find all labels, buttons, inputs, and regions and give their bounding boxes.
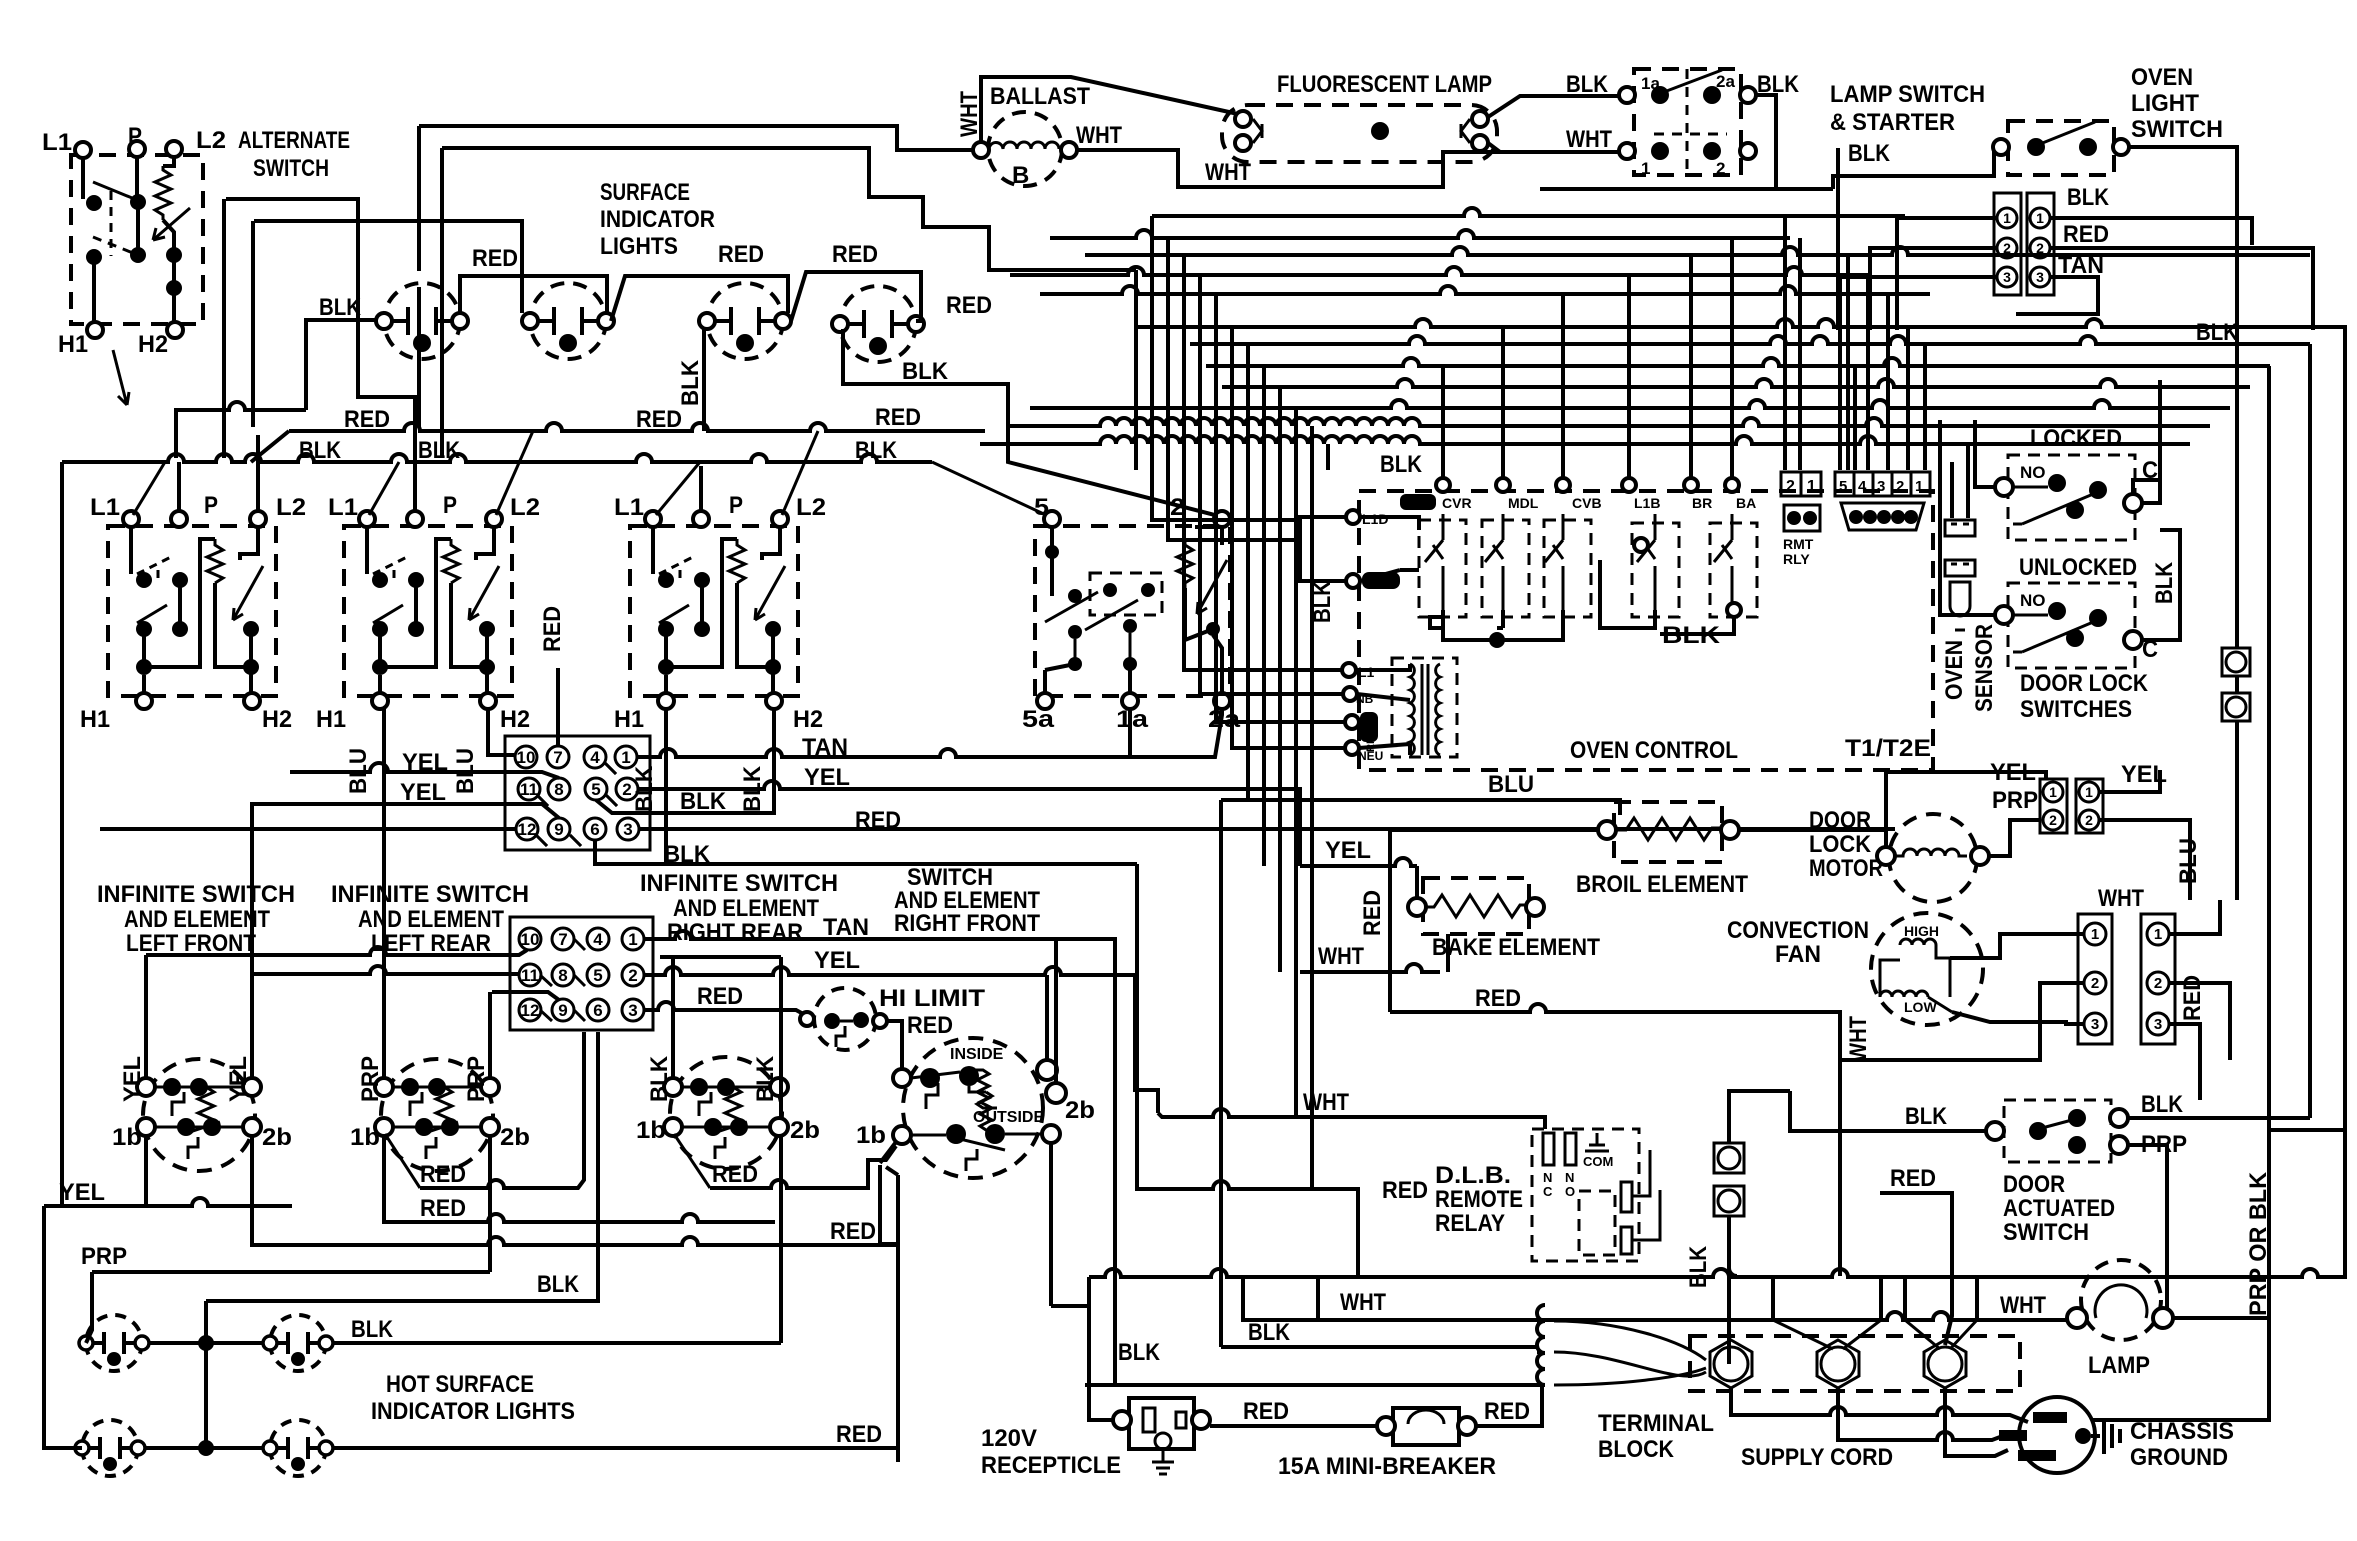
wire mid bottom long rows — [1089, 1130, 2345, 1277]
svg-text:H1: H1 — [614, 706, 644, 733]
svg-text:TERMINAL: TERMINAL — [1598, 1410, 1714, 1437]
svg-text:AND ELEMENT: AND ELEMENT — [358, 906, 504, 933]
wire hot lights column — [204, 1301, 208, 1448]
lamp switch and starter — [1540, 69, 2000, 189]
svg-text:P: P — [443, 492, 457, 519]
wire TAN pin1 to 2a — [637, 709, 1222, 757]
svg-text:WHT: WHT — [2000, 1292, 2046, 1319]
svg-text:2: 2 — [2049, 812, 2057, 828]
wire receptacle feed — [1089, 1277, 1113, 1420]
svg-text:DOOR LOCK: DOOR LOCK — [2020, 670, 2149, 697]
wires below hexes to plug — [1731, 1388, 2028, 1422]
svg-text:YEL: YEL — [814, 947, 860, 974]
svg-text:WHT: WHT — [1845, 1016, 1872, 1062]
diagonal feed L2 box1 — [256, 435, 260, 511]
svg-text:RED: RED — [539, 606, 566, 652]
svg-text:6: 6 — [590, 820, 599, 839]
svg-text:2: 2 — [2085, 812, 2093, 828]
column drops into oven control — [1443, 238, 1732, 481]
svg-text:BLK: BLK — [752, 1055, 779, 1102]
svg-text:HI LIMIT: HI LIMIT — [879, 985, 985, 1012]
12-pin connector bottom — [510, 917, 653, 1030]
svg-text:RED: RED — [946, 292, 992, 319]
svg-text:WHT: WHT — [2098, 885, 2144, 912]
wire box3-H1 drop — [664, 709, 668, 864]
NEU pin — [1345, 741, 1359, 755]
svg-text:DOOR: DOOR — [1809, 807, 1871, 834]
wire YEL to bake — [1300, 858, 1417, 898]
svg-text:BLK: BLK — [902, 358, 949, 385]
hot surface light 3 — [75, 1420, 145, 1476]
wire right edge verticals — [2269, 344, 2345, 1318]
switch box 1 (left) — [108, 511, 276, 709]
svg-text:8: 8 — [558, 966, 567, 985]
pin 3 — [617, 818, 639, 840]
bake element — [1423, 878, 1529, 934]
svg-text:YEL: YEL — [225, 1056, 252, 1102]
svg-text:RIGHT FRONT: RIGHT FRONT — [894, 910, 1040, 937]
bus row 7 — [1190, 336, 2310, 344]
svg-text:BA: BA — [1736, 495, 1756, 511]
bus row 2 — [1050, 230, 1790, 238]
wire TAN pin3R right — [2016, 277, 2098, 314]
chassis ground — [2091, 1418, 2120, 1454]
svg-text:FLUORESCENT LAMP: FLUORESCENT LAMP — [1277, 71, 1492, 98]
convection fan — [1871, 913, 1983, 1025]
pin 4 — [584, 746, 606, 768]
svg-text:2: 2 — [622, 780, 631, 799]
hi limit — [800, 988, 887, 1050]
svg-text:10: 10 — [521, 930, 540, 949]
fluorescent lamp tube — [1222, 105, 1497, 162]
pin 8 — [548, 778, 570, 800]
locked switch box — [2008, 455, 2135, 540]
svg-text:6: 6 — [593, 1001, 602, 1020]
svg-text:BLK: BLK — [537, 1271, 580, 1298]
relay bottoms junction — [1430, 610, 1563, 640]
svg-text:BLK: BLK — [646, 1055, 673, 1102]
infinite switch band — [97, 864, 1158, 1462]
bus row 6 long blk — [1136, 319, 2345, 420]
alternate switch box — [71, 155, 203, 324]
svg-text:3: 3 — [623, 820, 632, 839]
wire oven light switch drop right — [2235, 269, 2239, 900]
svg-text:2: 2 — [2154, 975, 2162, 992]
wire RED light2 to light3 jog — [611, 276, 788, 321]
svg-text:L1: L1 — [90, 494, 120, 521]
svg-text:SWITCH: SWITCH — [253, 155, 329, 182]
svg-text:INDICATOR LIGHTS: INDICATOR LIGHTS — [371, 1398, 575, 1425]
wire lamp feed from alternate switch upper — [226, 199, 415, 511]
svg-text:INSIDE: INSIDE — [950, 1046, 1004, 1063]
svg-text:UNLOCKED: UNLOCKED — [2019, 554, 2137, 581]
svg-text:15A MINI-BREAKER: 15A MINI-BREAKER — [1278, 1453, 1496, 1480]
svg-text:1: 1 — [2036, 210, 2044, 226]
svg-text:L1: L1 — [42, 129, 72, 156]
svg-text:120V: 120V — [981, 1425, 1037, 1452]
wire alternate switch feeds down — [224, 199, 253, 458]
15A mini breaker — [1393, 1408, 1459, 1445]
svg-text:CONVECTION: CONVECTION — [1727, 917, 1869, 944]
svg-text:PRP: PRP — [1992, 787, 2038, 814]
pin 10 — [515, 746, 537, 768]
switch box 2 — [344, 511, 512, 709]
wire YEL to pin8 — [290, 763, 559, 778]
svg-text:BLK: BLK — [299, 437, 342, 464]
pointer arrow — [113, 350, 129, 405]
svg-text:CVB: CVB — [1572, 495, 1602, 511]
svg-text:L2: L2 — [276, 494, 306, 521]
svg-text:LEFT FRONT: LEFT FRONT — [126, 930, 256, 957]
svg-text:1: 1 — [621, 748, 630, 767]
wire inside outside risers — [1047, 939, 1056, 1083]
bottom right: elements, DLB relay, motors, fan, lamp — [1137, 759, 2310, 1420]
pin 7 — [547, 746, 569, 768]
svg-text:WHT: WHT — [1566, 126, 1612, 153]
switch pole wires — [81, 158, 85, 199]
svg-text:DOOR: DOOR — [2003, 1171, 2065, 1198]
svg-text:RED: RED — [1484, 1398, 1530, 1425]
svg-text:COM: COM — [1583, 1154, 1613, 1169]
svg-text:11: 11 — [521, 966, 539, 985]
wire breaker to cord bundle — [1476, 1385, 1542, 1426]
infinite switch left front — [137, 1059, 261, 1171]
svg-text:O: O — [1565, 1184, 1575, 1199]
wire PRP row — [86, 1136, 490, 1343]
svg-text:2b: 2b — [1065, 1097, 1095, 1124]
svg-text:LEFT REAR: LEFT REAR — [371, 930, 491, 957]
svg-text:1: 1 — [628, 930, 637, 949]
resistor leg — [163, 157, 174, 166]
svg-text:H2: H2 — [500, 706, 530, 733]
svg-text:WHT: WHT — [1076, 122, 1122, 149]
svg-text:ALTERNATE: ALTERNATE — [238, 127, 350, 154]
svg-text:L1: L1 — [614, 494, 644, 521]
svg-text:L1B: L1B — [1634, 495, 1660, 511]
wire top run 2 — [442, 148, 1136, 270]
svg-text:BLK: BLK — [2067, 184, 2110, 211]
wire oven control left BLK feeds — [1152, 470, 1300, 540]
svg-text:2b: 2b — [262, 1124, 292, 1151]
svg-text:N: N — [1565, 1170, 1574, 1185]
svg-text:H1: H1 — [58, 331, 88, 358]
wire BLK row — [1221, 1277, 1537, 1347]
svg-text:1: 1 — [1915, 478, 1923, 495]
svg-text:1a: 1a — [1641, 74, 1660, 93]
wire BLK light3 drop — [702, 329, 706, 431]
2-1 connector — [1781, 472, 1821, 567]
svg-text:INFINITE SWITCH: INFINITE SWITCH — [331, 881, 529, 908]
bus row 3 — [1085, 247, 2310, 255]
svg-text:RED: RED — [1359, 890, 1386, 936]
bus row 9 — [1222, 379, 2250, 387]
svg-text:RED: RED — [1475, 985, 1521, 1012]
central wiring bus weave — [980, 208, 2345, 481]
svg-text:HIGH: HIGH — [1904, 923, 1939, 939]
svg-text:ACTUATED: ACTUATED — [2003, 1195, 2115, 1222]
wire BLU from oven control bottom — [1248, 470, 1312, 1190]
D.L.B. remote relay — [1532, 1129, 1660, 1261]
top edge pins — [1436, 478, 1450, 492]
wire fan connector right — [2169, 900, 2230, 1100]
svg-text:3: 3 — [2154, 1016, 2162, 1033]
svg-text:RED: RED — [2063, 221, 2109, 248]
diagonal feed L2 box3 — [782, 431, 818, 515]
svg-text:BLK: BLK — [1566, 71, 1609, 98]
pin 2 — [616, 778, 638, 800]
svg-text:OUTSIDE: OUTSIDE — [973, 1109, 1044, 1126]
svg-text:3: 3 — [1877, 478, 1885, 495]
svg-text:RED: RED — [712, 1161, 758, 1188]
wire RED light1 riser — [460, 276, 607, 313]
svg-text:CHASSIS: CHASSIS — [2130, 1418, 2234, 1445]
svg-text:NEU: NEU — [1358, 749, 1383, 763]
wire button drop to hex1 — [1729, 1091, 1790, 1364]
oven lamp — [2081, 1260, 2161, 1340]
svg-text:RMT: RMT — [1783, 536, 1814, 552]
svg-text:T1/T2E: T1/T2E — [1845, 735, 1931, 762]
wire ballast right to WHT run — [1077, 150, 1620, 187]
terminal block — [1690, 1336, 2020, 1391]
svg-text:RED: RED — [420, 1161, 466, 1188]
wavy weave right cluster — [1840, 330, 1855, 470]
svg-text:RED: RED — [697, 983, 743, 1010]
L1D pin — [1346, 510, 1360, 524]
wire door switch BLK right — [2128, 1118, 2310, 1318]
terminal L1 — [75, 142, 91, 158]
right front switch unit — [893, 1038, 1066, 1178]
svg-text:LIGHT: LIGHT — [2131, 90, 2199, 117]
wire row C to pin9 — [492, 992, 559, 1000]
wire WHT to lamp — [1243, 1277, 2067, 1320]
svg-text:11: 11 — [520, 780, 538, 799]
terminal H2 — [167, 322, 183, 338]
svg-text:5a: 5a — [1022, 706, 1055, 733]
pin 1 — [615, 746, 637, 768]
broil element — [1614, 802, 1722, 862]
svg-text:3: 3 — [628, 1001, 637, 1020]
svg-text:7: 7 — [558, 930, 567, 949]
wire light row2 — [146, 1446, 898, 1450]
bus row 12 wavy — [980, 436, 2190, 444]
supply cord fanout — [1773, 1016, 1977, 1349]
wire top feeds down to busses — [419, 126, 442, 458]
svg-text:REMOTE: REMOTE — [1435, 1186, 1523, 1213]
svg-text:2: 2 — [1786, 478, 1795, 495]
wire WHT row — [1300, 934, 1448, 972]
wire RED row2 — [384, 1136, 775, 1222]
svg-text:BALLAST: BALLAST — [990, 83, 1090, 110]
svg-text:BLK: BLK — [2141, 1091, 2184, 1118]
svg-text:BR: BR — [1692, 495, 1712, 511]
svg-text:SWITCHES: SWITCHES — [2020, 696, 2132, 723]
wire top run 1 — [419, 126, 973, 150]
svg-text:1: 1 — [2091, 926, 2099, 943]
wire YEL row — [252, 966, 1158, 1113]
switch box 4 (double, right-front burner) — [1035, 511, 1230, 709]
wire RED row1 LR — [385, 1134, 420, 1188]
svg-text:SWITCH: SWITCH — [2131, 116, 2223, 143]
svg-text:PRP: PRP — [463, 1056, 490, 1102]
svg-text:YEL: YEL — [1325, 837, 1371, 864]
svg-text:RED: RED — [907, 1012, 953, 1039]
svg-text:D.L.B.: D.L.B. — [1435, 1162, 1511, 1189]
wire YEL pin2 right — [638, 781, 1300, 866]
relay contact box 5 — [1710, 523, 1757, 617]
wire ballast top corner to lamp — [981, 77, 1247, 142]
svg-text:RED: RED — [832, 241, 878, 268]
hot surface light 2 — [263, 1315, 333, 1371]
svg-text:WHT: WHT — [1318, 943, 1364, 970]
hex terminal 1 — [1710, 1340, 1752, 1388]
svg-text:NO: NO — [2020, 591, 2046, 610]
indicator light 2 — [522, 283, 614, 359]
red and black supply bus over switches — [62, 126, 1046, 515]
wire BLK row lower — [1085, 1383, 1537, 1387]
oven connector blocks top right — [1840, 184, 2313, 330]
relay contact box 3 — [1544, 520, 1591, 617]
svg-text:MOTOR: MOTOR — [1809, 855, 1883, 882]
svg-text:INFINITE SWITCH: INFINITE SWITCH — [640, 870, 838, 897]
svg-text:LAMP SWITCH: LAMP SWITCH — [1830, 81, 1985, 108]
long interconnect wires — [44, 148, 2345, 1318]
svg-text:HOT SURFACE: HOT SURFACE — [386, 1371, 534, 1398]
svg-text:RED: RED — [420, 1195, 466, 1222]
transformer — [1392, 658, 1457, 757]
wire BLK to door switch — [1790, 1091, 1986, 1131]
diagonal feed L2 box2 — [496, 431, 533, 515]
svg-text:H2: H2 — [262, 706, 292, 733]
svg-text:AND ELEMENT: AND ELEMENT — [673, 895, 819, 922]
wire left area long vertical x1136 — [1134, 270, 1138, 470]
svg-text:BLK: BLK — [418, 437, 461, 464]
svg-text:H1: H1 — [80, 706, 110, 733]
wire BLU H2-box2 to pin10 — [488, 709, 515, 755]
wire row A to pin10 — [146, 947, 527, 955]
svg-text:L2: L2 — [796, 494, 826, 521]
svg-text:C: C — [1543, 1184, 1553, 1199]
wire from switch top right down — [1540, 95, 2000, 189]
wire lamp right to edge — [2093, 1318, 2269, 1420]
ballast B — [988, 112, 1062, 186]
bus row 11 wavy — [1008, 418, 2210, 426]
wire RED riser to broil — [1390, 830, 1598, 1012]
pin 11 — [518, 778, 540, 800]
svg-text:BLK: BLK — [680, 788, 727, 815]
wire RED pin2R right — [2051, 248, 2313, 330]
unlocked switch box — [2008, 583, 2135, 668]
svg-text:GROUND: GROUND — [2130, 1444, 2228, 1471]
svg-text:2a: 2a — [1716, 72, 1735, 91]
svg-text:SUPPLY CORD: SUPPLY CORD — [1741, 1444, 1893, 1471]
svg-text:YEL: YEL — [804, 764, 850, 791]
L1 pin — [1342, 663, 1356, 677]
svg-text:12: 12 — [518, 820, 537, 839]
connectors 2-pin pair — [2040, 779, 2067, 833]
svg-text:BLOCK: BLOCK — [1598, 1436, 1675, 1463]
relay contact box 2 — [1482, 520, 1529, 617]
bottom left hot surface lights — [44, 1032, 898, 1476]
bus row 10 — [1030, 400, 2230, 408]
wire right front 2b down — [1049, 1143, 1053, 1306]
wires L1D loop — [1300, 517, 1419, 581]
wire receptacle to breaker — [1210, 1424, 1377, 1428]
wire YEL connector right up — [2100, 770, 2190, 900]
5-4-3-2-1 connector — [1835, 472, 1930, 530]
wire to pin12 — [100, 827, 516, 831]
wire right front 1b down — [880, 1142, 898, 1462]
wire BLK light4 right — [843, 329, 1215, 515]
svg-text:OVEN CONTROL: OVEN CONTROL — [1570, 737, 1738, 764]
svg-text:YEL: YEL — [119, 1056, 146, 1102]
svg-text:N: N — [1543, 1170, 1552, 1185]
wire lamp right-top to lamp switch — [1488, 96, 1619, 117]
svg-text:RED: RED — [344, 406, 390, 433]
bus row 1 — [1152, 208, 1905, 216]
wire RED row4 — [252, 1136, 898, 1245]
wire box2-H1 drop down — [382, 709, 386, 1078]
svg-text:L2: L2 — [510, 494, 540, 521]
door lock switches — [1940, 380, 2250, 723]
diagonal feed L1 box1 — [133, 462, 165, 515]
svg-text:AND ELEMENT: AND ELEMENT — [124, 906, 270, 933]
wire LR terminal risers — [488, 992, 492, 1078]
wire RED center drop to pin7 — [556, 668, 560, 746]
right cluster drops to 2-1 connector — [1785, 216, 1800, 470]
hex terminal 3 — [1924, 1340, 1966, 1388]
door lock motor — [1889, 814, 1977, 902]
NB pin — [1343, 687, 1357, 701]
bottom center receptacle breaker terminal block — [981, 1277, 2234, 1480]
svg-text:L2: L2 — [196, 127, 226, 154]
top center: ballast and fluorescent lamp — [419, 71, 1620, 270]
infinite switch left rear — [375, 1059, 499, 1171]
wire YEL to pin9 — [250, 804, 559, 818]
wire TAN from pin1 — [644, 931, 1115, 1385]
wire unlocked NO left — [1940, 420, 1995, 615]
svg-text:LAMP: LAMP — [2088, 1352, 2150, 1379]
svg-text:BLK: BLK — [1848, 140, 1891, 167]
wire motor to connector — [1886, 772, 2046, 856]
wire left edge vertical yellow — [44, 462, 62, 1206]
wire lamp feed lower — [254, 221, 522, 313]
svg-text:RED: RED — [718, 241, 764, 268]
svg-text:8: 8 — [554, 780, 563, 799]
pin 5 — [585, 778, 607, 800]
svg-text:PRP: PRP — [357, 1056, 384, 1102]
svg-text:YEL: YEL — [400, 779, 446, 806]
svg-text:1b: 1b — [636, 1117, 666, 1144]
svg-text:BLK: BLK — [1380, 451, 1423, 478]
svg-text:1: 1 — [2085, 784, 2093, 800]
svg-text:NO: NO — [2020, 463, 2046, 482]
svg-text:9: 9 — [554, 820, 563, 839]
wire RED bus — [251, 423, 985, 462]
wire box4 1a riser — [1128, 709, 1132, 758]
svg-text:4: 4 — [593, 930, 603, 949]
svg-text:BLK: BLK — [319, 294, 362, 321]
svg-text:RED: RED — [1243, 1398, 1289, 1425]
relay contact box 4 — [1632, 523, 1679, 617]
wire RED light3 to light4 — [791, 272, 921, 321]
diagonal feed 5 box4 — [932, 462, 1046, 515]
svg-text:H1: H1 — [316, 706, 346, 733]
feed P box1 — [177, 462, 181, 511]
door actuated switch — [1986, 1100, 2128, 1162]
wire RF 1b drop — [880, 1165, 898, 1448]
supply cord wave bundle — [1537, 1305, 1545, 1385]
svg-text:4: 4 — [590, 748, 600, 767]
